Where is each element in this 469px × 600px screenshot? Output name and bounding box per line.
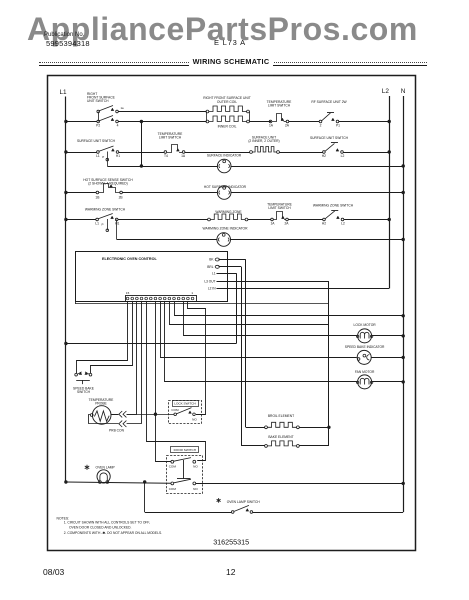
svg-text:INNER COIL: INNER COIL <box>218 124 237 128</box>
svg-text:OVEN LAMP SWITCH: OVEN LAMP SWITCH <box>227 500 261 504</box>
svg-text:LIMIT SWITCH: LIMIT SWITCH <box>268 104 291 108</box>
svg-text:WARMING ZONE: WARMING ZONE <box>215 210 242 214</box>
svg-text:1a: 1a <box>121 106 125 110</box>
svg-text:1A: 1A <box>181 154 186 158</box>
svg-text:BK: BK <box>209 258 214 262</box>
svg-text:15: 15 <box>126 291 130 295</box>
svg-text:WARMING ZONE SWITCH: WARMING ZONE SWITCH <box>313 203 354 207</box>
svg-text:L1: L1 <box>95 221 99 225</box>
svg-text:NO: NO <box>193 465 198 469</box>
svg-text:2A: 2A <box>284 221 289 225</box>
svg-text:1A: 1A <box>270 221 275 225</box>
svg-text:BROIL ELEMENT: BROIL ELEMENT <box>268 414 294 418</box>
svg-text:LIMIT SWITCH: LIMIT SWITCH <box>268 206 291 210</box>
svg-text:SURFACE UNIT SWITCH: SURFACE UNIT SWITCH <box>77 139 116 143</box>
svg-text:COM: COM <box>169 465 177 469</box>
svg-text:NO: NO <box>193 487 198 491</box>
svg-text:L2: L2 <box>341 221 345 225</box>
svg-text:SPEED BAKE INDICATOR: SPEED BAKE INDICATOR <box>345 345 385 349</box>
svg-text:L1: L1 <box>60 89 68 96</box>
svg-text:UNIT SWITCH: UNIT SWITCH <box>87 99 109 103</box>
svg-text:1A: 1A <box>269 123 274 127</box>
svg-text:1. CIRCUIT SHOWN WITH ALL CO: 1. CIRCUIT SHOWN WITH ALL CONTROLS SET T… <box>64 521 150 525</box>
svg-text:H2: H2 <box>322 154 326 158</box>
svg-text:2: 2 <box>320 123 322 127</box>
svg-text:OVEN DOOR CLOSED AND UNLOCKED.: OVEN DOOR CLOSED AND UNLOCKED. <box>69 526 132 530</box>
svg-text:LOCK MOTOR: LOCK MOTOR <box>354 323 377 327</box>
svg-text:L2: L2 <box>382 88 390 95</box>
svg-text:H1: H1 <box>115 221 119 225</box>
svg-text:PRB CON: PRB CON <box>109 429 125 433</box>
svg-text:2B: 2B <box>119 196 124 200</box>
svg-text:P1: P1 <box>336 123 340 127</box>
svg-text:BRL: BRL <box>207 265 213 269</box>
svg-text:L2: L2 <box>341 154 345 158</box>
svg-text:4: 4 <box>117 123 119 127</box>
svg-text:COM: COM <box>171 408 179 412</box>
svg-text:PROBE: PROBE <box>95 401 107 405</box>
svg-text:ELECTRONIC OVEN CONTROL: ELECTRONIC OVEN CONTROL <box>102 257 157 261</box>
svg-text:P: P <box>101 223 103 227</box>
svg-text:T4: T4 <box>164 154 168 158</box>
svg-text:H2: H2 <box>322 221 326 225</box>
svg-text:L2 IN: L2 IN <box>208 287 216 291</box>
svg-text:HOT SURFACE INDICATOR: HOT SURFACE INDICATOR <box>204 185 247 189</box>
svg-text:SURFACE INDICATOR: SURFACE INDICATOR <box>207 154 242 158</box>
svg-text:BAKE ELEMENT: BAKE ELEMENT <box>268 435 293 439</box>
svg-text:L1: L1 <box>96 154 100 158</box>
svg-text:316255315: 316255315 <box>213 537 249 546</box>
svg-text:NO: NO <box>192 418 197 422</box>
svg-text:(2 INNER, 2 OUTER): (2 INNER, 2 OUTER) <box>248 139 279 143</box>
svg-text:L1: L1 <box>212 272 216 276</box>
svg-text:LIMIT SWITCH: LIMIT SWITCH <box>159 136 182 140</box>
svg-text:WARMING ZONE SWITCH: WARMING ZONE SWITCH <box>85 208 126 212</box>
svg-text:P2: P2 <box>96 123 100 127</box>
svg-text:DOOR SWITCH: DOOR SWITCH <box>174 448 196 452</box>
svg-text:(2 SHOWN, 4 REQUIRED): (2 SHOWN, 4 REQUIRED) <box>88 181 128 185</box>
svg-text:SURFACE UNIT SWITCH: SURFACE UNIT SWITCH <box>310 136 349 140</box>
svg-text:H1: H1 <box>116 154 120 158</box>
svg-text:L3 OUT: L3 OUT <box>204 279 215 283</box>
svg-text:RF SURFACE UNIT 2W: RF SURFACE UNIT 2W <box>311 100 347 104</box>
svg-text:SWITCH: SWITCH <box>77 390 91 394</box>
svg-text:OVEN LAMP: OVEN LAMP <box>96 466 116 470</box>
svg-text:2A: 2A <box>285 123 290 127</box>
svg-text:OUTER COIL: OUTER COIL <box>217 100 237 104</box>
svg-text:LOCK SWITCH: LOCK SWITCH <box>174 402 196 406</box>
svg-text:WARMING ZONE INDICATOR: WARMING ZONE INDICATOR <box>203 227 249 231</box>
svg-text:FAN MOTOR: FAN MOTOR <box>355 370 375 374</box>
svg-text:P: P <box>102 155 104 159</box>
svg-text:N: N <box>401 88 406 95</box>
svg-text:1: 1 <box>191 291 193 295</box>
svg-text:1B: 1B <box>95 196 100 200</box>
svg-text:COM: COM <box>169 487 177 491</box>
svg-text:NOTES:: NOTES: <box>57 516 70 520</box>
svg-text:2. COMPONENTS WITH -✱- DO: 2. COMPONENTS WITH -✱- DO NOT APPEAR ON … <box>64 531 162 535</box>
